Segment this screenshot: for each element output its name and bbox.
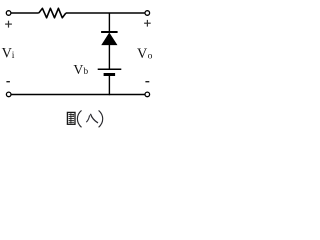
caption 圖 (hanzi "figure", drawn) bbox=[67, 112, 75, 124]
wire resistor to terminal top-right bbox=[66, 12, 145, 14]
battery Vb (short negative plate) bbox=[104, 73, 116, 76]
wire: diode to battery bbox=[108, 45, 110, 69]
caption 八 (hanzi "eight", drawn) bbox=[86, 115, 89, 122]
caption close paren bbox=[99, 110, 103, 127]
resistor R bbox=[39, 8, 66, 17]
svg-text:b: b bbox=[84, 67, 89, 77]
plus sign top-left bbox=[5, 21, 12, 28]
svg-text:i: i bbox=[12, 50, 15, 61]
svg-text:o: o bbox=[148, 50, 153, 61]
wire top-left to resistor bbox=[11, 12, 39, 14]
wire: battery to bottom wire bbox=[108, 76, 110, 95]
diode D (cathode bar) bbox=[101, 31, 118, 33]
terminal top-left (open circle) bbox=[6, 11, 11, 16]
bottom wire bbox=[11, 94, 145, 96]
minus sign bottom-right bbox=[145, 81, 149, 83]
terminal bottom-left (open circle) bbox=[6, 92, 11, 97]
plus sign top-right bbox=[144, 20, 151, 27]
battery Vb (long positive plate) bbox=[98, 68, 122, 70]
diode D (triangle, pointing up) bbox=[102, 33, 117, 45]
terminal top-right (open circle) bbox=[145, 11, 150, 16]
wire: node down to diode bbox=[108, 13, 110, 31]
caption open paren bbox=[77, 110, 81, 127]
terminal bottom-right (open circle) bbox=[145, 92, 150, 97]
minus sign bottom-left bbox=[6, 81, 9, 83]
svg-text:V: V bbox=[73, 62, 83, 77]
svg-text:V: V bbox=[137, 46, 148, 62]
